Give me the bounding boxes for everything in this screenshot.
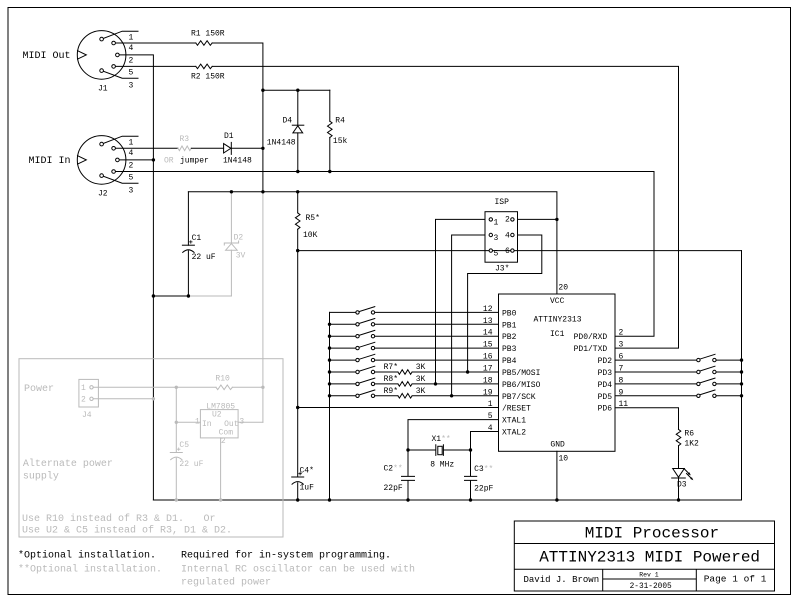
svg-text:C2: C2 [384, 465, 394, 474]
junction R5/reset line [296, 249, 299, 252]
wire right rail [741, 251, 743, 500]
svg-text:9: 9 [619, 388, 624, 397]
junction PD4 switch/rail [740, 382, 743, 385]
switch SW12 on PD5 [615, 390, 742, 396]
switch SW11 on PD4 [615, 378, 742, 384]
svg-text:7: 7 [619, 365, 624, 374]
capacitor C1 22uF [187, 192, 189, 245]
junction reset wire [296, 406, 299, 409]
wire switch bus to ground [329, 312, 331, 500]
svg-text:**Optional installation.: **Optional installation. [18, 564, 162, 576]
svg-text:U2: U2 [212, 411, 222, 420]
connector J3* ISP header [485, 212, 518, 263]
junction XTAL2/crystal [469, 448, 472, 451]
wire J1 pin4 to R1 [114, 42, 196, 44]
svg-text:2: 2 [221, 437, 226, 446]
resistor R9* 3K [398, 393, 499, 398]
svg-text:ATTINY2313: ATTINY2313 [534, 316, 582, 325]
svg-text:XTAL2: XTAL2 [502, 429, 526, 438]
svg-text:3K: 3K [416, 363, 426, 372]
svg-text:IC1: IC1 [550, 330, 565, 339]
svg-text:R5*: R5* [306, 214, 320, 223]
svg-text:D3: D3 [677, 480, 687, 489]
capacitor C4* 1uF [292, 476, 304, 478]
svg-text:Power: Power [24, 384, 54, 395]
wire /RESET to IC [298, 407, 499, 409]
wire J2 pin1 stub [102, 136, 138, 144]
svg-text:*Optional installation.: *Optional installation. [18, 549, 156, 561]
svg-text:PD4: PD4 [598, 381, 613, 390]
svg-text:PB6/MISO: PB6/MISO [502, 381, 541, 390]
resistor R8* 3K [398, 382, 499, 387]
resistor R10 (gray) [216, 385, 232, 390]
wire ground spur to C1/D2 [153, 295, 188, 297]
svg-text:1N4148: 1N4148 [267, 139, 296, 148]
wire gray spur to D2 [188, 295, 231, 297]
connector J2 MIDI In DIN [77, 136, 126, 185]
svg-text:12: 12 [483, 305, 493, 314]
svg-text:PB2: PB2 [502, 333, 517, 342]
connector J4 power (gray) [79, 379, 99, 407]
junction bus/ground rail [328, 498, 331, 501]
svg-text:OR: OR [164, 157, 174, 166]
svg-text:2: 2 [505, 216, 510, 225]
svg-text:PB4: PB4 [502, 357, 517, 366]
junction C5/ground rail (gray) [175, 498, 178, 501]
svg-text:6: 6 [505, 247, 510, 256]
LED D3 [673, 469, 685, 478]
switch SW2 on PB1 [330, 319, 499, 325]
svg-text:3K: 3K [416, 387, 426, 396]
switch SW6 on PB5 [330, 366, 398, 372]
switch SW9 on PD2 [615, 354, 742, 360]
svg-text:R6: R6 [684, 430, 694, 439]
svg-text:4: 4 [505, 231, 510, 240]
resistor R1 [196, 41, 212, 46]
svg-text:2: 2 [619, 329, 624, 338]
switch SW8 on PB7 [330, 390, 398, 396]
svg-text:1uF: 1uF [300, 484, 315, 493]
svg-text:3: 3 [129, 82, 134, 91]
svg-text:3: 3 [129, 187, 134, 196]
svg-text:4: 4 [129, 44, 134, 53]
svg-text:Use R10 instead of R3 & D1.: Use R10 instead of R3 & D1. [22, 513, 184, 525]
svg-text:Required for in-system program: Required for in-system programming. [181, 549, 391, 561]
junction PD2 switch/rail [740, 358, 743, 361]
junction VCC node/rail [261, 190, 264, 193]
svg-text:PD0/RXD: PD0/RXD [574, 333, 608, 342]
junction C3/ground rail [469, 498, 472, 501]
svg-text:regulated power: regulated power [181, 577, 271, 589]
wire R10 to VCC node (gray) [232, 192, 263, 422]
svg-text:3: 3 [494, 234, 499, 243]
svg-text:Use U2 & C5 instead of R3, D1: Use U2 & C5 instead of R3, D1 & D2. [22, 525, 232, 537]
wire J1 pin5 to R2 [114, 65, 196, 67]
wire J2 pin4 to R3 [114, 147, 178, 149]
svg-text:D4: D4 [283, 117, 293, 126]
wire J1 pin1 stub [102, 31, 138, 39]
svg-text:5: 5 [129, 69, 134, 78]
svg-text:20: 20 [558, 284, 568, 293]
svg-text:C1: C1 [192, 234, 202, 243]
svg-text:D2: D2 [234, 233, 244, 242]
svg-text:C3: C3 [474, 465, 484, 474]
switch SW5 on PB4 [330, 354, 499, 360]
wire J4 pin1 to R10 (gray) [93, 386, 216, 388]
wire J1 pin2 to ground vertical [117, 55, 153, 500]
junction U2-in/C5 (gray) [175, 421, 178, 424]
svg-text:3V: 3V [236, 252, 246, 261]
svg-text:22 uF: 22 uF [179, 460, 203, 469]
junction D2/VCC rail [230, 190, 233, 193]
svg-text:3: 3 [239, 417, 244, 426]
svg-text:R9*: R9* [384, 387, 398, 396]
svg-text:1: 1 [129, 34, 134, 43]
svg-text:14: 14 [483, 329, 493, 338]
wire J2 pin5 to PD0/RXD [114, 172, 654, 337]
wire XTAL2 [471, 432, 499, 451]
svg-text:/RESET: /RESET [502, 405, 531, 414]
svg-text:5: 5 [129, 174, 134, 183]
wire R3 to D1 [191, 147, 223, 149]
junction VCC node top [261, 89, 264, 92]
svg-text:In: In [202, 420, 212, 429]
node VCC rail [188, 192, 557, 294]
svg-text:3: 3 [619, 341, 624, 350]
junction J4 pin2/ground (gray) [152, 397, 155, 400]
wire VCC top branch [263, 89, 330, 91]
junction J4/U2-in (gray) [175, 386, 178, 389]
svg-text:6: 6 [619, 353, 624, 362]
connector J1 MIDI Out DIN [77, 31, 126, 80]
svg-text:Rev 1: Rev 1 [639, 571, 659, 578]
junction C2/ground rail [406, 498, 409, 501]
wire J2 pin3 stub [102, 176, 138, 184]
svg-text:5: 5 [494, 250, 499, 259]
svg-text:8 MHz: 8 MHz [430, 461, 454, 470]
svg-text:C4*: C4* [300, 467, 314, 476]
switch SW1 on PB0 [330, 307, 499, 313]
svg-text:2: 2 [129, 162, 134, 171]
junction bus/PB2 [328, 335, 331, 338]
svg-text:D1: D1 [224, 132, 234, 141]
svg-text:PD3: PD3 [598, 369, 613, 378]
junction PD5 switch/rail [740, 394, 743, 397]
wire ISP pin4 to PB5 [468, 235, 542, 372]
svg-text:PB1: PB1 [502, 321, 517, 330]
diode D1 1N4148 [224, 144, 231, 153]
svg-text:17: 17 [483, 365, 493, 374]
svg-text:13: 13 [483, 317, 493, 326]
wire XTAL1 [408, 420, 499, 476]
svg-text:MIDI Processor: MIDI Processor [585, 525, 719, 543]
svg-text:4: 4 [129, 149, 134, 158]
svg-text:Out: Out [224, 420, 238, 429]
svg-text:1: 1 [129, 139, 134, 148]
svg-text:PD5: PD5 [598, 393, 613, 402]
junction D4 top [296, 89, 299, 92]
svg-text:11: 11 [619, 400, 629, 409]
svg-text:19: 19 [483, 388, 493, 397]
svg-text:PD6: PD6 [598, 405, 613, 414]
svg-text:ATTINY2313 MIDI Powered: ATTINY2313 MIDI Powered [539, 549, 760, 567]
svg-text:PB3: PB3 [502, 345, 517, 354]
switch SW10 on PD3 [615, 366, 742, 372]
svg-text:1: 1 [494, 218, 499, 227]
svg-text:18: 18 [483, 376, 493, 385]
junction C1/ground spur [187, 294, 190, 297]
junction ground line/C1 spur [152, 294, 155, 297]
svg-text:R7*: R7* [384, 363, 398, 372]
resistor R2 [196, 64, 212, 69]
svg-text:MIDI Out: MIDI Out [23, 51, 71, 62]
zener D2 (optional, gray) [230, 192, 232, 243]
junction R5/VCC rail [296, 190, 299, 193]
svg-text:Alternate power: Alternate power [23, 458, 113, 470]
svg-text:David J. Brown: David J. Brown [524, 575, 600, 585]
svg-text:Or: Or [204, 514, 216, 525]
svg-text:**: ** [441, 435, 451, 444]
resistor R3 (optional, gray) [178, 146, 191, 151]
junction MISO/PB6 [434, 382, 437, 385]
svg-text:1: 1 [195, 418, 200, 427]
junction bus/PB7 [328, 394, 331, 397]
svg-text:C5: C5 [179, 441, 189, 450]
svg-text:22 uF: 22 uF [192, 253, 216, 262]
svg-text:R1 150R: R1 150R [191, 30, 225, 39]
svg-text:4: 4 [488, 424, 493, 433]
junction R4/RXD line [328, 170, 331, 173]
crystal X1** 8 MHz [408, 445, 471, 456]
capacitor C2** 22pF [402, 476, 415, 500]
svg-text:R8*: R8* [384, 375, 398, 384]
svg-text:10: 10 [559, 455, 569, 464]
switch SW3 on PB2 [330, 330, 499, 336]
svg-text:1: 1 [488, 400, 493, 409]
svg-text:1: 1 [81, 384, 86, 393]
svg-text:PB5/MOSI: PB5/MOSI [502, 369, 540, 378]
junction R10/U2-out (gray) [261, 386, 264, 389]
svg-text:2-31-2005: 2-31-2005 [630, 583, 672, 591]
wire ISP pin2 to VCC [518, 218, 557, 220]
gray box alternate power supply [19, 359, 283, 537]
svg-text:R3: R3 [180, 135, 190, 144]
junction GND pin/ground rail [555, 498, 558, 501]
resistor R5* 10K reset pull-up [297, 192, 299, 213]
svg-text:J2: J2 [98, 190, 108, 199]
junction D4 anode/RXD line [296, 170, 299, 173]
svg-text:2: 2 [81, 396, 86, 405]
svg-text:22pF: 22pF [474, 485, 493, 494]
junction D3/ground rail [677, 498, 680, 501]
junction J2 pin2/ground line [152, 158, 155, 161]
junction bus/PB5 [328, 370, 331, 373]
switch SW4 on PB3 [330, 342, 499, 348]
junction SCK/PB7 [450, 394, 453, 397]
wire reset to ISP pin5 / pin6 to right rail [298, 250, 742, 252]
wire U2 common to ground (gray) [220, 438, 222, 500]
wire J4 pin2 to ground (gray) [93, 398, 153, 400]
svg-text:supply: supply [23, 471, 59, 483]
svg-text:16: 16 [483, 353, 493, 362]
svg-text:PD1/TXD: PD1/TXD [574, 345, 608, 354]
svg-text:10K: 10K [303, 231, 318, 240]
svg-text:R10: R10 [215, 374, 230, 383]
IC1 ATTINY2313 box [499, 294, 616, 451]
svg-text:J4: J4 [82, 411, 92, 420]
resistor R4 15k [329, 90, 331, 121]
svg-text:PB7/SCK: PB7/SCK [502, 393, 536, 402]
svg-text:R4: R4 [335, 117, 345, 126]
wire J2 pin2 to ground vertical [117, 159, 153, 161]
capacitor C3** 22pF [465, 450, 477, 500]
svg-text:8: 8 [619, 376, 624, 385]
svg-text:MIDI In: MIDI In [29, 156, 71, 167]
svg-text:1N4148: 1N4148 [223, 157, 252, 166]
wire GND pin 10 [556, 451, 558, 500]
title block [514, 521, 774, 591]
svg-text:5: 5 [488, 412, 493, 421]
junction MOSI/PB5 [466, 370, 469, 373]
wire D1 to VCC node [231, 147, 263, 149]
wire U2 input (gray) [176, 387, 200, 452]
svg-text:jumper: jumper [180, 157, 209, 166]
svg-text:J3*: J3* [495, 265, 509, 274]
junction bus/PB1 [328, 323, 331, 326]
svg-text:**: ** [393, 465, 403, 474]
wire PD6 to R6 [615, 408, 679, 430]
svg-text:ISP: ISP [495, 198, 510, 207]
svg-text:2: 2 [129, 57, 134, 66]
svg-text:PD2: PD2 [598, 357, 613, 366]
wire ISP pin3 to PB7 [452, 235, 485, 396]
svg-text:Page 1 of 1: Page 1 of 1 [704, 574, 767, 585]
svg-text:**: ** [484, 465, 494, 474]
wire J1 pin3 stub [102, 71, 138, 79]
wire ISP pin1 to PB6 [436, 219, 486, 384]
junction U2-com/ground rail (gray) [219, 498, 222, 501]
svg-text:22pF: 22pF [384, 484, 403, 493]
svg-text:J1: J1 [98, 85, 108, 94]
capacitor C5 22uF (gray) [170, 453, 182, 501]
junction C4/ground rail [296, 498, 299, 501]
svg-text:15: 15 [483, 341, 493, 350]
regulator U2 LM7805 (gray) [200, 410, 238, 438]
svg-text:XTAL1: XTAL1 [502, 417, 526, 426]
svg-text:3K: 3K [416, 375, 426, 384]
svg-text:Internal RC oscillator can be: Internal RC oscillator can be used with [181, 564, 415, 576]
svg-text:15k: 15k [333, 137, 348, 146]
svg-text:GND: GND [550, 441, 565, 450]
wire ground rail [153, 499, 741, 501]
wire R2 to PD1/TXD [212, 66, 678, 348]
switch SW7 on PB6 [330, 378, 398, 384]
junction bus/PB3 [328, 346, 331, 349]
svg-text:VCC: VCC [550, 297, 565, 306]
junction bus/PB6 [328, 382, 331, 385]
svg-text:PB0: PB0 [502, 309, 517, 318]
svg-text:1K2: 1K2 [684, 440, 699, 449]
svg-text:R2 150R: R2 150R [191, 73, 225, 82]
resistor R7* 3K [398, 370, 499, 375]
wire U2 output (gray) [238, 421, 263, 423]
svg-text:X1: X1 [432, 435, 442, 444]
junction XTAL1/crystal [406, 448, 409, 451]
junction PD3 switch/rail [740, 370, 743, 373]
junction ISP pin2/VCC [555, 218, 558, 221]
diode D4 1N4148 (clamp) [297, 90, 299, 125]
resistor R6 1K2 [676, 429, 681, 468]
wire R1 to VCC node [212, 43, 263, 192]
junction bus/PB4 [328, 358, 331, 361]
junction D1 cathode [261, 147, 264, 150]
